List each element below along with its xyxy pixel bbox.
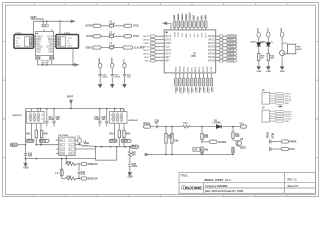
svg-text:AUDIOL: AUDIOL [218, 141, 227, 144]
top pin net names (rotated) [173, 12, 207, 20]
svg-text:ⓘINJOINIC: ⓘINJOINIC [181, 185, 202, 192]
svg-text:DETC: DETC [144, 57, 150, 59]
svg-text:GN1a: GN1a [27, 141, 34, 143]
LED col1 wire [258, 37, 260, 66]
wire MIC1 branch down [25, 109, 27, 163]
resistor R21 box [36, 56, 40, 59]
speaker unit SP2 body [110, 112, 128, 124]
SP1 top pin stubs [32, 109, 41, 112]
resistor R46 zigzag [62, 177, 76, 180]
svg-text:GPIO2: GPIO2 [208, 43, 216, 45]
wire VBUS rail [34, 20, 72, 22]
row1 right pill [124, 24, 132, 27]
inductor L6 vertical [60, 169, 63, 176]
MCU U7 body [164, 30, 216, 73]
svg-text:GPIO9: GPIO9 [227, 50, 235, 52]
row3 ferrite bead L4 [110, 46, 114, 48]
capacitor C22 [111, 75, 114, 76]
J1 pin labels [284, 94, 291, 106]
svg-text:R42: R42 [44, 133, 49, 136]
svg-text:GND: GND [284, 121, 289, 123]
svg-text:R44: R44 [126, 133, 131, 136]
resistor R42 [40, 130, 42, 138]
junction dots on VBAT rail [37, 108, 122, 110]
svg-text:SYS1: SYS1 [133, 26, 140, 28]
MIC1 pill [10, 143, 17, 146]
row2 ferrite bead L3 [110, 35, 114, 37]
bottom pin net label bars [175, 87, 211, 93]
frame ticks bottom [34, 195, 287, 197]
svg-text:DATC: DATC [87, 35, 94, 38]
svg-text:VCC: VCC [124, 58, 126, 63]
capacitor C35 [105, 109, 108, 127]
svg-text:VCK: VCK [182, 33, 184, 38]
svg-text:0.1uF: 0.1uF [115, 76, 121, 78]
U2 left pin names [36, 36, 43, 53]
row1 pill PWR [282, 140, 289, 143]
J1 bracket box [262, 92, 270, 104]
svg-text:CLK: CLK [165, 46, 170, 48]
svg-text:Date: 2023-04-10 Drawn: Date: 2023-04-10 Drawn By: IT900 [205, 190, 244, 193]
branch C39 [171, 127, 173, 155]
capacitor C31 (right of SP1) [45, 109, 48, 127]
svg-text:ACIN: ACIN [272, 132, 275, 138]
frame ticks right [316, 41, 319, 157]
svg-text:R43: R43 [109, 133, 114, 136]
frame ticks left [3, 41, 6, 157]
top pin names inside [174, 31, 207, 37]
J2 supply arrow [277, 105, 283, 107]
capacitor C34 (left of SP2) [98, 109, 101, 127]
svg-text:LINEL: LINEL [191, 87, 193, 94]
SP2 top pin stubs [115, 109, 124, 112]
resistor R32 [267, 54, 269, 61]
ground col2 [110, 84, 114, 87]
svg-text:VCCK: VCCK [181, 13, 184, 20]
row1 wire [101, 25, 124, 27]
svg-text:10uH: 10uH [84, 143, 90, 145]
svg-text:GPIO8: GPIO8 [208, 53, 216, 55]
svg-text:MICL: MICL [199, 66, 201, 72]
svg-text:DACR: DACR [178, 65, 181, 72]
top pin pill boxes [173, 21, 207, 28]
MCU VDD arrow top-left [163, 22, 171, 25]
row2 wire [101, 35, 124, 37]
row2 pill [282, 147, 289, 150]
svg-text:VBAT: VBAT [67, 95, 74, 98]
svg-text:GND: GND [23, 167, 28, 169]
wire bottom-left node [26, 159, 96, 179]
wire rail to left connector [33, 21, 35, 34]
resistor R45 zigzag [65, 159, 67, 164]
row2 left pill [93, 35, 101, 38]
title block dividers [179, 172, 316, 193]
svg-text:VDD1: VDD1 [99, 57, 101, 64]
row3 left pill [93, 46, 101, 49]
bottom pin names inside [175, 65, 213, 72]
svg-text:VCM: VCM [211, 67, 213, 72]
wires U2 to left connector [34, 37, 36, 47]
capacitor C37 polarized [128, 159, 132, 172]
right pin number boxes [220, 35, 223, 62]
svg-text:SD: SD [69, 153, 72, 155]
svg-text:QDE1: QDE1 [240, 148, 247, 150]
J1 pin rows [270, 94, 276, 104]
svg-text:VCC3: VCC3 [177, 13, 180, 20]
U8 left pin boxes [59, 139, 64, 155]
svg-text:KEY: KEY [281, 27, 283, 32]
svg-text:R4b: R4b [204, 149, 209, 152]
U8 body [59, 137, 76, 155]
wire SPK row [96, 146, 131, 148]
arrow VBUS rail right [71, 20, 75, 23]
svg-text:AUDIO1C: AUDIO1C [13, 114, 23, 117]
svg-text:GND: GND [128, 177, 133, 179]
svg-text:CMD: CMD [165, 43, 171, 45]
svg-text:CMDC: CMDC [86, 47, 93, 49]
U8 pin texts [60, 140, 73, 155]
svg-text:DAT2C: DAT2C [143, 35, 150, 38]
resistor R47 vertical zigzag [128, 147, 131, 159]
capacitor C21 [99, 75, 102, 76]
svg-text:XOT: XOT [202, 32, 204, 37]
wires U2 to right connector [54, 37, 57, 47]
U2 top pins [44, 29, 52, 31]
svg-text:PWRK: PWRK [290, 142, 297, 144]
J2 pin boxes [275, 111, 284, 123]
left pin pills [150, 35, 155, 62]
junction dots on VBUS rail [43, 21, 45, 23]
svg-text:100u: 100u [132, 166, 138, 168]
svg-text:IN-: IN- [60, 144, 63, 146]
svg-text:DAT0C: DAT0C [143, 49, 150, 52]
J2 pin labels [284, 111, 292, 123]
svg-text:10uF: 10uF [102, 76, 108, 78]
MCU bottom pins [175, 65, 213, 94]
svg-text:AVD: AVD [185, 33, 188, 38]
svg-text:1uF: 1uF [155, 123, 160, 125]
frame ticks top [34, 3, 287, 6]
SP1 bottom pin stubs [32, 124, 41, 127]
svg-text:AVSS: AVSS [202, 66, 205, 72]
svg-text:DAT1C: DAT1C [143, 53, 150, 56]
capacitor C19 on bus [42, 60, 48, 62]
row1 ferrite bead L2 [110, 25, 114, 27]
svg-text:GPIO8: GPIO8 [227, 54, 235, 56]
svg-text:MOX: MOX [297, 49, 302, 51]
svg-text:AUDIO2C: AUDIO2C [128, 119, 138, 122]
svg-text:GPIO4: GPIO4 [227, 57, 235, 59]
svg-text:LINL: LINL [191, 67, 193, 72]
svg-text:DAT1: DAT1 [165, 52, 171, 55]
ground SPK branch [128, 172, 132, 175]
svg-text:VC18: VC18 [178, 31, 180, 37]
branch R49 + pill [201, 127, 203, 155]
capacitor C1 below rail [43, 21, 47, 24]
svg-text:CMDC: CMDC [143, 43, 150, 45]
wire MIC1 [17, 144, 25, 146]
svg-text:0.1uF: 0.1uF [109, 34, 115, 36]
svg-text:O-: O- [69, 144, 72, 146]
cap column 1 pin circle [99, 63, 102, 68]
MCU top pins [173, 12, 207, 37]
svg-text:VREF: VREF [207, 87, 209, 94]
left pin net labels [140, 35, 150, 63]
MCU pin1 dot [166, 31, 168, 33]
svg-text:XO: XO [200, 16, 203, 20]
svg-text:VDD: VDD [173, 14, 176, 19]
right pin wires [223, 36, 227, 61]
wire rail to right connector [59, 21, 61, 34]
cap column 2 wire [111, 68, 113, 84]
J1 pin boxes [275, 93, 284, 105]
capacitor C32 [52, 109, 55, 127]
svg-text:VIO: VIO [190, 33, 192, 37]
SP2 bottom pin stubs [115, 124, 124, 127]
svg-text:VSS: VSS [194, 33, 196, 38]
cap column 3 wire [124, 68, 126, 84]
svg-text:GPIO0: GPIO0 [208, 36, 216, 38]
bottom pin net labels (rotated) [175, 86, 213, 94]
svg-text:VSS: VSS [193, 15, 196, 20]
svg-text:AVSS: AVSS [203, 87, 206, 93]
svg-text:DAT3C: DAT3C [143, 39, 150, 42]
wire audio1 out [36, 144, 58, 146]
svg-text:REV: 1.0: REV: 1.0 [288, 179, 298, 181]
svg-text:DAT0: DAT0 [165, 49, 171, 52]
pill SDIO1 [81, 162, 87, 165]
row1 left pill [93, 24, 101, 27]
right pin pills [227, 35, 237, 62]
pill SDIO2 [81, 177, 87, 180]
col3 pin circle [280, 32, 283, 37]
svg-text:R41: R41 [26, 133, 31, 136]
resistor R4d [232, 148, 234, 154]
svg-text:FL1: FL1 [184, 123, 189, 125]
ground LED col2 [266, 66, 270, 69]
bottom pin pill boxes [175, 78, 213, 86]
svg-text:LINR: LINR [187, 67, 189, 72]
svg-text:GPIO5: GPIO5 [227, 61, 235, 63]
svg-text:GPIO0a: GPIO0a [227, 36, 236, 38]
svg-text:DET: DET [165, 57, 170, 59]
svg-text:VDDIO: VDDIO [189, 12, 192, 20]
svg-text:4.7u: 4.7u [81, 173, 86, 176]
crystal Y1 [78, 138, 82, 143]
svg-text:TITLE:: TITLE: [181, 175, 188, 177]
svg-text:DACL: DACL [182, 65, 185, 72]
svg-text:R22: R22 [50, 58, 55, 60]
ground col1 [98, 84, 102, 87]
frame inner border [6, 5, 316, 194]
bottom rail [149, 154, 233, 156]
svg-text:LED1: LED1 [251, 42, 257, 44]
speaker unit SP1 body [27, 112, 45, 124]
row2 capacitor C42 [270, 147, 271, 151]
svg-text:DACL: DACL [183, 87, 186, 94]
U2 right pin names [46, 36, 53, 53]
svg-text:1K: 1K [261, 57, 264, 59]
svg-text:U8 D-B23: U8 D-B23 [59, 135, 69, 137]
svg-text:GPIO2.4: GPIO2.4 [227, 43, 237, 45]
U2 bottom stubs [38, 56, 52, 57]
GND pill 1a [26, 139, 34, 142]
connector CON2 (right, thick) [56, 35, 79, 49]
right pin net labels [227, 36, 237, 63]
svg-text:0.1uF: 0.1uF [109, 45, 115, 47]
LED col1 pin circle [257, 32, 260, 37]
svg-text:0.1uF: 0.1uF [109, 23, 115, 25]
cap column 1 wire [99, 68, 101, 84]
svg-text:VDD: VDD [60, 149, 65, 151]
svg-text:SH2: SH2 [36, 51, 41, 53]
svg-text:WP: WP [165, 60, 169, 62]
VL1 pill [241, 125, 247, 128]
svg-text:MICR: MICR [195, 66, 197, 72]
LED col2 wire [267, 37, 269, 66]
op IC U2 body [36, 32, 54, 56]
branch R48 [165, 127, 167, 155]
VPB02 pill [144, 125, 151, 128]
svg-text:Sheet: 1/1: Sheet: 1/1 [288, 185, 300, 188]
svg-text:VDD2: VDD2 [111, 57, 113, 64]
svg-text:GN2b: GN2b [122, 141, 129, 143]
arrow left on bottom rail [145, 153, 149, 156]
GND pill 2b [121, 139, 131, 142]
AUDIOBLK pill [210, 140, 218, 143]
J2 pin rows [270, 112, 276, 122]
top pin net label bars [174, 14, 206, 20]
svg-text:GPIO3: GPIO3 [208, 46, 216, 48]
wire R41 to net [36, 138, 41, 145]
U8 right pin boxes [69, 139, 74, 155]
svg-text:AVDD: AVDD [185, 13, 188, 20]
SPK pill [131, 145, 139, 148]
transistor Q4 [236, 141, 242, 147]
wire R43 to bottom net [119, 138, 124, 148]
svg-text:10uF: 10uF [94, 119, 100, 121]
svg-text:XIN: XIN [198, 33, 200, 37]
svg-text:GN2a: GN2a [110, 141, 117, 143]
svg-text:R21: R21 [36, 58, 41, 60]
col3 wire [282, 37, 288, 66]
svg-text:GPIO3.1: GPIO3.1 [227, 47, 237, 49]
wire SP1 pins to resistors [32, 126, 41, 139]
svg-text:GND: GND [60, 153, 65, 155]
svg-text:WPC: WPC [145, 61, 150, 63]
wires SP2 pins down [115, 126, 124, 139]
svg-text:GPIO5: GPIO5 [208, 60, 216, 62]
MCU right pins [208, 35, 237, 63]
svg-text:GND: GND [257, 71, 262, 73]
capacitor C33 [24, 154, 27, 156]
capacitor C23 [123, 75, 126, 76]
svg-text:GND: GND [68, 46, 73, 48]
row3 right pill [123, 46, 133, 49]
U2 pin1 mark [37, 33, 38, 34]
svg-text:LED2: LED2 [260, 42, 266, 44]
svg-text:RST: RST [204, 14, 207, 19]
svg-text:DMIC: DMIC [175, 66, 177, 72]
svg-text:SDIO3.0F: SDIO3.0F [88, 179, 99, 181]
svg-text:GND: GND [284, 103, 289, 105]
GND pill 2a [109, 139, 117, 142]
svg-text:MICL: MICL [199, 87, 201, 93]
svg-text:B05: B05 [192, 56, 197, 58]
svg-text:MIC1: MIC1 [11, 145, 17, 147]
svg-text:LL4148: LL4148 [213, 122, 222, 125]
svg-text:10uF: 10uF [48, 119, 54, 121]
svg-text:DAT2: DAT2 [165, 35, 171, 38]
GND pill 1b [39, 139, 49, 142]
title block outer [179, 172, 316, 193]
svg-text:VBUS: VBUS [268, 132, 270, 139]
capacitor C36 [78, 164, 81, 179]
svg-text:GPIO4: GPIO4 [208, 57, 216, 59]
svg-text:1K5: 1K5 [204, 137, 209, 139]
svg-text:SH4: SH4 [48, 51, 53, 53]
svg-text:SPK+: SPK+ [132, 147, 139, 149]
left pin names inside [165, 35, 171, 63]
right pin names inside [208, 36, 216, 63]
resistor R43 [118, 130, 120, 138]
row2 right pill [124, 35, 132, 38]
transistor Q3 [280, 50, 285, 55]
ground col3 [280, 66, 284, 69]
svg-text:10K: 10K [168, 138, 173, 140]
J2 bracket box [262, 110, 270, 122]
right pin stubs [216, 36, 220, 61]
svg-text:CLKSYSC: CLKSYSC [140, 47, 150, 49]
CON2 inner detail [58, 37, 66, 46]
wire U8 out row2 [75, 144, 81, 146]
bottom pin stubs [176, 73, 212, 78]
left pin stubs [155, 36, 164, 61]
svg-text:BAT+: BAT+ [290, 148, 297, 151]
svg-text:VREF: VREF [207, 66, 209, 72]
resistor R44 [123, 130, 125, 138]
svg-text:VCM: VCM [210, 87, 212, 92]
top pin stubs [175, 28, 206, 30]
MCU left pins [140, 35, 172, 63]
switch S1 box [288, 44, 296, 54]
svg-text:Company: INJOINIC: Company: INJOINIC [205, 185, 228, 188]
svg-text:IM8802_DWP0_V1.2: IM8802_DWP0_V1.2 [204, 178, 231, 182]
VBAT supply arrow [70, 100, 73, 104]
ground MIC1 [24, 163, 28, 166]
wire VBAT rail [26, 108, 125, 110]
U8 left stubs [56, 140, 59, 153]
capacitor C38 series [156, 125, 157, 128]
junction dots on bus [42, 64, 44, 66]
resistor R22 box [49, 56, 53, 59]
resistor R4b [201, 147, 203, 153]
resistor R31 [258, 54, 260, 61]
svg-text:DAT2C: DAT2C [86, 25, 94, 28]
svg-text:GPIO9: GPIO9 [208, 50, 216, 52]
arrow bus right [75, 64, 79, 67]
svg-text:GND: GND [16, 46, 21, 48]
cap column 2 pin circle [111, 63, 114, 68]
svg-text:VD33: VD33 [174, 31, 176, 37]
row3 wire [101, 47, 123, 49]
wire chain main [151, 126, 241, 128]
ground LED col1 [257, 66, 261, 69]
svg-text:DMIC: DMIC [175, 86, 177, 92]
svg-text:SYS2: SYS2 [133, 36, 140, 38]
CON1 inner detail [25, 37, 33, 46]
svg-text:GND: GND [266, 71, 271, 73]
